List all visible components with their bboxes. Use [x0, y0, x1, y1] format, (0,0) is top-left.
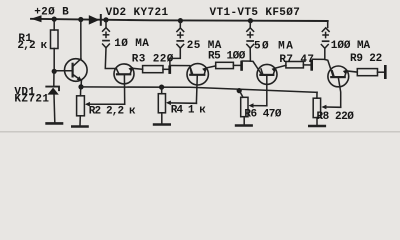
terminal: R7 right bar	[310, 60, 313, 71]
arrow: supply input terminal	[31, 15, 42, 22]
wire: VT5 base lead down	[338, 77, 340, 107]
resistor R9	[357, 69, 377, 76]
svg-text:R5 1ØØ: R5 1ØØ	[208, 50, 246, 62]
node: rail junction R1 top	[52, 17, 57, 22]
ground: R6	[236, 124, 252, 127]
svg-text:R9 22: R9 22	[350, 53, 382, 65]
transistor VT3	[187, 64, 208, 85]
wire: +20V top rail	[31, 19, 328, 21]
transistor VT4	[257, 64, 277, 84]
wire: VT1 base lead	[54, 70, 72, 72]
resistor R1	[53, 19, 55, 30]
transistor VT1	[65, 59, 88, 82]
resistor R3	[143, 66, 163, 73]
node: rail junction VT1 collector	[78, 17, 83, 22]
jack X4: 100 mA tap	[327, 21, 329, 27]
svg-text:5Ø МА: 5Ø МА	[254, 40, 294, 52]
wire: VT4 base lead down	[266, 75, 268, 106]
node: rail junction jack X1	[103, 17, 108, 22]
svg-text:VD2 KY721: VD2 KY721	[106, 7, 169, 19]
svg-text:R7 47: R7 47	[279, 54, 314, 66]
ground: R8	[309, 125, 325, 128]
diode VD2	[89, 15, 100, 25]
node: VT1 emitter / R2 / base bus	[78, 84, 83, 89]
svg-text:2,2 к: 2,2 к	[17, 40, 47, 52]
node: rail junction jack X2	[178, 18, 183, 23]
svg-text:R3 22Ø: R3 22Ø	[132, 54, 174, 66]
svg-text:R2 2,2 к: R2 2,2 к	[89, 106, 136, 118]
wire: VT1 collector to rail	[80, 20, 82, 59]
ground: VD1	[47, 122, 62, 125]
wire: VT2 emitter to R3	[132, 68, 142, 69]
svg-text:R6 47Ø: R6 47Ø	[244, 109, 282, 121]
transistor VT5	[328, 66, 349, 87]
node A: R1 / VD1 / VT1 base	[52, 69, 57, 74]
terminal: R5 right bar	[240, 61, 243, 71]
svg-text:VT1-VT5 KF5Ø7: VT1-VT5 KF5Ø7	[210, 7, 301, 19]
svg-text:1Ø МА: 1Ø МА	[114, 38, 149, 50]
ground: R2	[72, 125, 87, 128]
wire: VT4 emitter to R7	[275, 65, 286, 68]
zener diode VD1	[53, 71, 55, 86]
node: rail junction jack X3	[248, 18, 253, 23]
transistor VT2	[114, 64, 134, 84]
wire: X3 stem split to R5 bar / VT4 collector	[242, 48, 250, 61]
wire: VT1 emitter down	[80, 81, 82, 87]
terminal: R9 right bar	[384, 65, 387, 79]
wire: X2 stem and jog to R3 bar / VT3 collector	[170, 48, 180, 65]
trimmer R2	[80, 87, 82, 96]
wire: emitter bus	[81, 87, 317, 92]
wire: VT3 base lead down	[195, 75, 198, 103]
scan artifact: bottom edge line	[0, 131, 400, 132]
svg-text:R8 22Ø: R8 22Ø	[317, 111, 355, 123]
wire: VT2 base lead down	[123, 74, 125, 104]
terminal: R3 right bar	[168, 65, 171, 74]
jack X1: 10 mA tap	[105, 20, 107, 28]
wire: VT3 emitter to R5	[206, 66, 216, 68]
trimmer R6	[237, 88, 242, 93]
resistor R5	[216, 62, 234, 68]
wire: VT5 emitter to R9	[347, 71, 358, 72]
jack X2: 25 mA tap	[179, 21, 181, 28]
svg-text:R4 1 к: R4 1 к	[171, 105, 207, 117]
svg-text:KZ721: KZ721	[14, 93, 49, 105]
svg-text:1ØØ МА: 1ØØ МА	[331, 40, 371, 52]
wire: X4 stem split to R7 bar / VT5 collector	[313, 48, 325, 59]
trimmer R4	[159, 85, 164, 90]
trimmer R8	[316, 92, 318, 98]
ground: R4	[154, 123, 170, 126]
jack X3: 50 mA tap	[249, 21, 251, 28]
resistor R7	[286, 62, 304, 68]
wire: X1 to VT2 collector	[105, 48, 116, 69]
